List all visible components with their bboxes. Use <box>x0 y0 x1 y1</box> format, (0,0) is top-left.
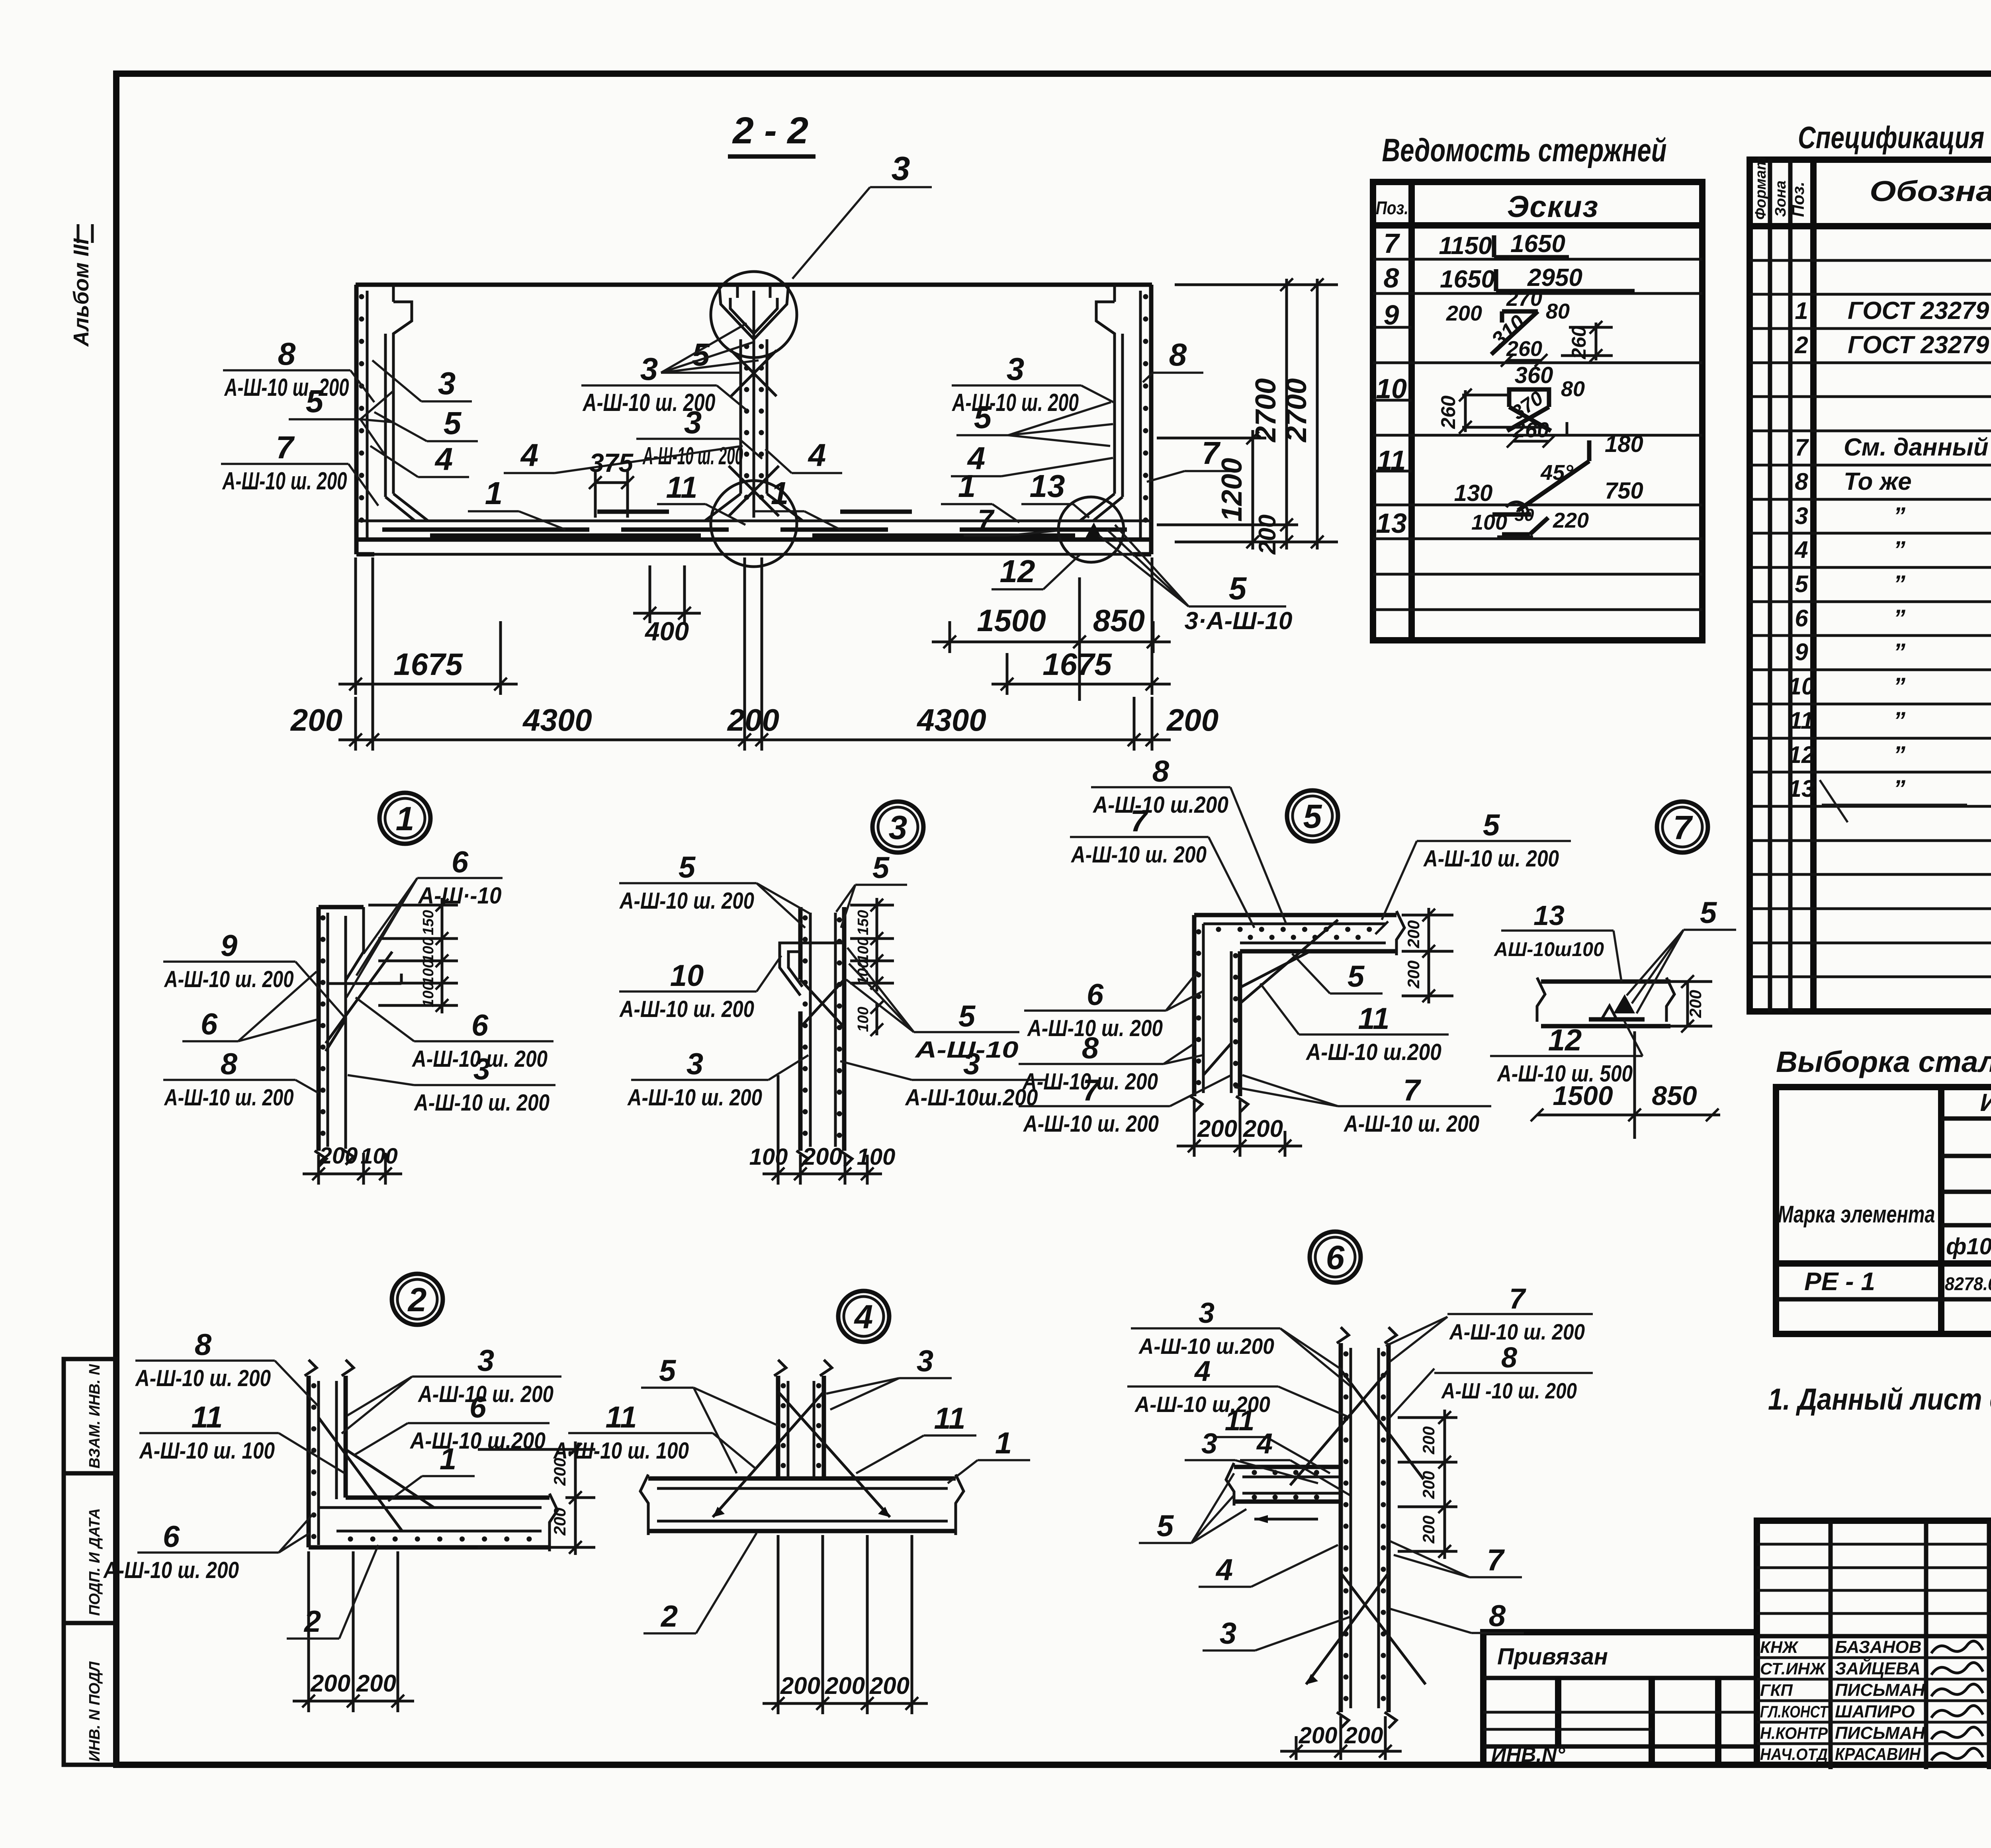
svg-text:”: ” <box>1893 775 1905 802</box>
svg-text:НАЧ.ОТД: НАЧ.ОТД <box>1760 1745 1828 1764</box>
svg-text:6: 6 <box>469 1390 487 1424</box>
svg-text:8: 8 <box>221 1047 238 1081</box>
svg-text:180: 180 <box>1605 431 1643 457</box>
svg-text:7: 7 <box>1083 1074 1101 1107</box>
svg-text:3: 3 <box>640 351 658 387</box>
svg-text:7: 7 <box>1487 1543 1505 1577</box>
svg-text:КНЖ: КНЖ <box>1760 1638 1799 1656</box>
svg-text:200: 200 <box>1446 301 1482 325</box>
svg-text:1: 1 <box>771 475 789 511</box>
svg-text:8: 8 <box>1152 755 1170 788</box>
svg-text:ГОСТ 23279 -85: ГОСТ 23279 -85 <box>1848 297 1991 325</box>
svg-text:100: 100 <box>360 1143 397 1168</box>
svg-text:”: ” <box>1893 536 1905 563</box>
svg-text:КРАСАВИН: КРАСАВИН <box>1835 1744 1921 1764</box>
svg-text:2700: 2700 <box>1281 378 1312 443</box>
svg-text:8: 8 <box>1169 337 1187 372</box>
svg-text:5: 5 <box>1795 571 1809 597</box>
signatures squiggles <box>1931 1641 1983 1653</box>
svg-text:А-Ш-10 ш. 200: А-Ш-10 ш. 200 <box>1449 1319 1585 1344</box>
detail 7 <box>1657 802 1708 853</box>
svg-text:3·А-Ш-10: 3·А-Ш-10 <box>1185 607 1293 635</box>
svg-text:Н.КОНТР: Н.КОНТР <box>1760 1724 1828 1742</box>
svg-text:9: 9 <box>1795 639 1808 665</box>
svg-text:Привязан: Привязан <box>1497 1644 1608 1670</box>
svg-text:А-Ш-10 ш. 200: А-Ш-10 ш. 200 <box>627 1085 762 1111</box>
svg-text:11: 11 <box>666 471 698 505</box>
svg-text:13: 13 <box>1376 508 1407 539</box>
svg-text:1: 1 <box>396 800 415 837</box>
svg-text:200: 200 <box>1243 1115 1283 1142</box>
svg-text:1650: 1650 <box>1440 266 1495 293</box>
svg-text:”: ” <box>1893 741 1905 768</box>
svg-text:8: 8 <box>1489 1599 1506 1633</box>
svg-text:Зона: Зона <box>1772 180 1789 217</box>
svg-text:9: 9 <box>1384 299 1399 330</box>
svg-text:5: 5 <box>1483 808 1500 842</box>
svg-text:1650: 1650 <box>1510 230 1565 258</box>
svg-text:6: 6 <box>1087 978 1104 1012</box>
privyazan box <box>1483 1632 1757 1765</box>
svg-text:1: 1 <box>1795 297 1808 324</box>
svg-text:4: 4 <box>1794 536 1808 563</box>
svg-text:11: 11 <box>1377 445 1406 476</box>
svg-text:2700: 2700 <box>1250 378 1282 443</box>
svg-text:А-Ш-10 ш. 200: А-Ш-10 ш. 200 <box>164 1085 294 1111</box>
svg-text:”: ” <box>1893 571 1905 597</box>
svg-text:7: 7 <box>1673 809 1693 846</box>
svg-text:А-Ш-10 ш. 200: А-Ш-10 ш. 200 <box>642 442 743 470</box>
svg-text:4: 4 <box>1215 1553 1233 1587</box>
svg-text:3: 3 <box>1199 1297 1215 1329</box>
svg-text:30: 30 <box>1515 505 1534 525</box>
svg-text:5: 5 <box>1303 798 1322 835</box>
svg-text:1150: 1150 <box>1439 232 1492 260</box>
svg-text:ШАПИРО: ШАПИРО <box>1835 1702 1915 1721</box>
left wall <box>354 285 359 554</box>
svg-text:5: 5 <box>306 383 324 419</box>
svg-text:200: 200 <box>310 1670 350 1697</box>
detail 4 <box>838 1291 889 1342</box>
svg-text:ГОСТ 23279 - 85: ГОСТ 23279 - 85 <box>1848 331 1991 359</box>
svg-text:260: 260 <box>1437 395 1459 429</box>
svg-text:9: 9 <box>221 929 237 963</box>
svg-text:1: 1 <box>995 1426 1012 1460</box>
svg-text:3: 3 <box>1220 1617 1236 1650</box>
svg-text:А-Ш-10 ш. 200: А-Ш-10 ш. 200 <box>1343 1111 1479 1137</box>
svg-text:6: 6 <box>1795 605 1808 632</box>
svg-text:6: 6 <box>201 1007 218 1041</box>
svg-text:200: 200 <box>1254 514 1281 555</box>
svg-text:200: 200 <box>869 1672 909 1699</box>
svg-text:400: 400 <box>644 616 689 646</box>
svg-text:3: 3 <box>686 1047 703 1081</box>
svg-text:3: 3 <box>477 1344 494 1378</box>
svg-text:5: 5 <box>444 405 462 441</box>
svg-text:А-Ш-10 ш. 200: А-Ш-10 ш. 200 <box>103 1557 239 1583</box>
svg-text:7: 7 <box>1130 804 1149 838</box>
svg-text:Поз.: Поз. <box>1376 198 1408 218</box>
svg-text:11: 11 <box>1225 1405 1255 1437</box>
svg-text:ф10: ф10 <box>1946 1234 1991 1259</box>
svg-text:ЗАЙЦЕВА: ЗАЙЦЕВА <box>1835 1658 1921 1678</box>
svg-text:12: 12 <box>1788 741 1815 768</box>
svg-text:8: 8 <box>1501 1342 1517 1374</box>
detail 1 <box>379 793 430 844</box>
svg-text:А-Ш-10 ш. 100: А-Ш-10 ш. 100 <box>139 1438 275 1464</box>
svg-text:11: 11 <box>1789 707 1814 734</box>
svg-text:Изделия монолитные: Изделия монолитные <box>1980 1089 1991 1117</box>
svg-text:”: ” <box>1893 673 1905 700</box>
svg-text:100: 100 <box>420 982 437 1007</box>
svg-text:7: 7 <box>1403 1074 1422 1107</box>
svg-text:4: 4 <box>1256 1428 1273 1460</box>
svg-text:3: 3 <box>684 405 702 440</box>
svg-text:А-Ш-10 ш. 200: А-Ш-10 ш. 200 <box>1023 1111 1159 1137</box>
detail 5 <box>1287 790 1338 841</box>
svg-text:10: 10 <box>1376 373 1407 404</box>
svg-text:А-Ш-10 ш. 100: А-Ш-10 ш. 100 <box>553 1438 689 1464</box>
svg-text:3: 3 <box>1201 1428 1217 1460</box>
svg-text:4: 4 <box>808 437 826 473</box>
svg-text:1200: 1200 <box>1216 458 1248 522</box>
svg-text:3: 3 <box>889 809 907 846</box>
svg-text:100: 100 <box>749 1144 788 1170</box>
svg-text:4: 4 <box>520 437 539 473</box>
svg-text:260: 260 <box>1568 326 1590 360</box>
svg-text:8: 8 <box>1795 468 1808 495</box>
svg-text:100: 100 <box>420 937 437 962</box>
svg-text:А-Ш-10 ш. 200: А-Ш-10 ш. 200 <box>164 966 294 992</box>
svg-text:8: 8 <box>1082 1031 1099 1065</box>
svg-text:ГЛ.КОНСТ: ГЛ.КОНСТ <box>1760 1702 1829 1721</box>
svg-text:А-Ш-10 ш.200: А-Ш-10 ш.200 <box>1092 792 1228 818</box>
svg-text:200: 200 <box>290 702 342 737</box>
svg-text:”: ” <box>1893 503 1905 529</box>
svg-text:А-Ш-10 ш. 200: А-Ш-10 ш. 200 <box>619 888 754 914</box>
svg-text:12: 12 <box>1000 553 1035 589</box>
svg-text:2: 2 <box>303 1605 321 1639</box>
svg-text:150: 150 <box>855 910 872 935</box>
svg-text:ИНВ. N ПОДЛ: ИНВ. N ПОДЛ <box>86 1661 103 1762</box>
svg-text:1675: 1675 <box>1042 647 1112 682</box>
svg-text:7: 7 <box>978 504 995 536</box>
right vertical dims <box>1175 284 1338 286</box>
svg-text:200: 200 <box>1419 1426 1438 1455</box>
svg-text:5: 5 <box>958 999 976 1033</box>
svg-text:2: 2 <box>407 1281 427 1318</box>
svg-text:8: 8 <box>1384 262 1399 293</box>
svg-text:Эскиз: Эскиз <box>1507 190 1599 224</box>
svg-text:5: 5 <box>872 851 890 885</box>
svg-text:200: 200 <box>1166 702 1218 737</box>
svg-text:Поз.: Поз. <box>1789 182 1807 217</box>
svg-text:13: 13 <box>1788 775 1815 802</box>
svg-text:100: 100 <box>1471 510 1507 534</box>
svg-text:А-Ш-10 ш.200: А-Ш-10 ш.200 <box>409 1428 546 1454</box>
svg-text:А-Ш-10 ш.200: А-Ш-10 ш.200 <box>1305 1039 1441 1065</box>
svg-text:80: 80 <box>1546 299 1570 323</box>
svg-text:200: 200 <box>1197 1115 1237 1142</box>
svg-text:3: 3 <box>1795 503 1808 529</box>
svg-text:200: 200 <box>1419 1516 1438 1544</box>
svg-text:200: 200 <box>1686 990 1705 1018</box>
svg-text:1675: 1675 <box>393 647 463 682</box>
svg-text:4300: 4300 <box>916 702 986 737</box>
svg-text:8: 8 <box>278 336 296 372</box>
svg-text:200: 200 <box>1404 920 1423 948</box>
svg-text:СТ.ИНЖ: СТ.ИНЖ <box>1760 1659 1826 1678</box>
svg-text:11: 11 <box>934 1402 966 1435</box>
svg-text:200: 200 <box>1419 1471 1438 1499</box>
svg-text:ПИСЬМАН: ПИСЬМАН <box>1835 1723 1925 1743</box>
svg-text:А-Ш·-10: А-Ш·-10 <box>418 883 502 909</box>
svg-text:6: 6 <box>471 1009 489 1042</box>
svg-text:100: 100 <box>855 1007 872 1032</box>
svg-text:11: 11 <box>1358 1002 1390 1036</box>
svg-text:Спецификация элементов монолит: Спецификация элементов монолитной констр… <box>1798 120 1991 155</box>
svg-text:БАЗАНОВ: БАЗАНОВ <box>1835 1637 1921 1657</box>
svg-text:7: 7 <box>1795 434 1809 461</box>
detail 2 <box>392 1274 443 1325</box>
svg-text:7: 7 <box>1384 228 1400 259</box>
svg-text:1: 1 <box>485 475 503 511</box>
svg-text:270: 270 <box>1506 287 1542 311</box>
svg-text:200: 200 <box>727 702 779 737</box>
svg-text:4: 4 <box>1194 1355 1211 1387</box>
svg-text:260: 260 <box>1506 337 1542 361</box>
svg-text:А-Ш-10 ш. 200: А-Ш-10 ш. 200 <box>413 1090 550 1116</box>
svg-text:1: 1 <box>440 1442 456 1476</box>
svg-text:200: 200 <box>356 1670 396 1697</box>
svg-text:2 - 2: 2 - 2 <box>732 110 808 152</box>
svg-text:Обозначение: Обозначение <box>1870 176 1991 207</box>
svg-text:1. Данный лист см. совместно с: 1. Данный лист см. совместно с листом 21 <box>1768 1383 1991 1416</box>
svg-text:См. данный лист: См. данный лист <box>1844 434 1991 461</box>
svg-text:5: 5 <box>1700 896 1717 930</box>
svg-text:А-Ш -10 ш. 200: А-Ш -10 ш. 200 <box>1441 1378 1577 1403</box>
svg-text:Ведомость стержней: Ведомость стержней <box>1382 132 1667 168</box>
svg-text:3: 3 <box>473 1052 490 1086</box>
svg-text:3: 3 <box>1007 351 1025 387</box>
svg-text:3: 3 <box>892 150 910 187</box>
svg-text:200: 200 <box>1299 1723 1338 1748</box>
svg-text:850: 850 <box>1652 1081 1697 1111</box>
svg-text:6: 6 <box>1326 1239 1345 1276</box>
svg-text:200: 200 <box>802 1143 842 1170</box>
svg-text:6: 6 <box>452 845 469 879</box>
svg-text:Альбом III: Альбом III <box>69 238 93 347</box>
detail 6 <box>1310 1232 1361 1283</box>
svg-text:ПИСЬМАН: ПИСЬМАН <box>1835 1680 1925 1700</box>
svg-text:5: 5 <box>679 851 696 884</box>
svg-text:А-Ш-10 ш. 200: А-Ш-10 ш. 200 <box>224 374 349 401</box>
svg-text:5: 5 <box>1348 960 1365 993</box>
svg-text:5: 5 <box>1229 571 1247 606</box>
svg-text:200: 200 <box>825 1672 865 1699</box>
svg-text:4: 4 <box>434 441 453 477</box>
svg-text:200: 200 <box>1344 1723 1383 1748</box>
svg-text:А-Ш-10 ш. 200: А-Ш-10 ш. 200 <box>1070 842 1207 868</box>
svg-text:То же: То же <box>1844 468 1912 495</box>
svg-text:200: 200 <box>550 1508 569 1536</box>
svg-text:100: 100 <box>420 960 437 985</box>
svg-text:8278.0: 8278.0 <box>1945 1273 1991 1294</box>
callout circles on section <box>711 272 797 358</box>
svg-text:45°: 45° <box>1540 461 1573 485</box>
svg-text:1500: 1500 <box>1553 1081 1613 1111</box>
svg-text:А-Ш-10 ш. 200: А-Ш-10 ш. 200 <box>222 467 347 495</box>
svg-text:2: 2 <box>1794 332 1808 358</box>
svg-text:13: 13 <box>1533 900 1565 931</box>
svg-text:11: 11 <box>606 1400 637 1434</box>
title block <box>1757 1521 1991 1765</box>
svg-text:1: 1 <box>958 468 976 504</box>
left stamp boxes <box>64 1359 116 1765</box>
svg-text:”: ” <box>1893 707 1905 734</box>
svg-text:А-Ш-10 ш. 200: А-Ш-10 ш. 200 <box>135 1365 271 1391</box>
svg-text:А-Ш-10ш.200: А-Ш-10ш.200 <box>905 1085 1038 1111</box>
svg-text:3: 3 <box>917 1344 933 1378</box>
svg-text:Выборка стали на один элемент.: Выборка стали на один элемент. кг <box>1776 1045 1991 1078</box>
svg-text:6: 6 <box>163 1520 180 1554</box>
svg-text:750: 750 <box>1605 478 1643 504</box>
svg-text:ВЗАМ. ИНВ. N: ВЗАМ. ИНВ. N <box>86 1364 103 1469</box>
svg-text:АШ-10ш100: АШ-10ш100 <box>1493 938 1604 960</box>
row 11 sketch <box>1587 440 1592 461</box>
svg-text:”: ” <box>1893 639 1905 665</box>
svg-text:130: 130 <box>1454 480 1493 506</box>
svg-text:Марка элемента: Марка элемента <box>1778 1201 1935 1228</box>
svg-text:1500: 1500 <box>977 603 1046 638</box>
svg-text:А-Ш-10 ш. 200: А-Ш-10 ш. 200 <box>1423 846 1559 872</box>
svg-text:А-Ш-10 ш. 200: А-Ш-10 ш. 200 <box>952 389 1079 417</box>
svg-text:А-Ш-10 ш.200: А-Ш-10 ш.200 <box>1138 1334 1274 1359</box>
svg-text:260: 260 <box>1513 418 1549 442</box>
svg-text:10: 10 <box>670 959 704 993</box>
tank section outline <box>356 283 1152 287</box>
svg-text:12: 12 <box>1548 1023 1582 1057</box>
svg-text:10: 10 <box>1788 673 1815 700</box>
svg-text:5: 5 <box>659 1354 677 1388</box>
svg-text:11: 11 <box>192 1400 223 1434</box>
svg-text:200: 200 <box>319 1143 358 1169</box>
svg-text:200: 200 <box>780 1672 820 1699</box>
svg-text:850: 850 <box>1093 603 1145 638</box>
svg-text:РЕ - 1: РЕ - 1 <box>1804 1267 1875 1296</box>
svg-text:200: 200 <box>1404 960 1423 989</box>
right wall <box>1149 285 1154 554</box>
svg-text:80: 80 <box>1561 377 1585 401</box>
bottom slab <box>356 520 1152 522</box>
svg-text:100: 100 <box>857 1144 896 1170</box>
svg-text:220: 220 <box>1553 508 1589 532</box>
svg-text:”: ” <box>1893 605 1905 632</box>
detail 3 <box>872 802 923 853</box>
svg-text:7: 7 <box>1509 1283 1526 1315</box>
svg-text:3: 3 <box>438 366 456 401</box>
center wall <box>739 339 742 494</box>
svg-text:4: 4 <box>854 1298 873 1336</box>
svg-text:Формат: Формат <box>1752 156 1769 220</box>
svg-text:ИНВ.N°: ИНВ.N° <box>1491 1743 1566 1766</box>
svg-text:150: 150 <box>420 910 437 935</box>
svg-text:360: 360 <box>1515 362 1553 388</box>
svg-text:2: 2 <box>660 1600 678 1633</box>
svg-text:3: 3 <box>963 1047 980 1081</box>
svg-text:4300: 4300 <box>522 702 592 737</box>
svg-text:7: 7 <box>276 430 295 465</box>
svg-text:5: 5 <box>974 399 992 435</box>
svg-text:А-Ш-10 ш. 200: А-Ш-10 ш. 200 <box>619 996 754 1022</box>
svg-text:5: 5 <box>1157 1509 1174 1543</box>
svg-text:ПОДП. И ДАТА: ПОДП. И ДАТА <box>86 1508 103 1616</box>
stray mark row13 <box>1820 780 1848 822</box>
svg-text:8: 8 <box>195 1328 212 1362</box>
svg-text:13: 13 <box>1030 468 1065 504</box>
svg-text:ГКП: ГКП <box>1760 1681 1793 1699</box>
